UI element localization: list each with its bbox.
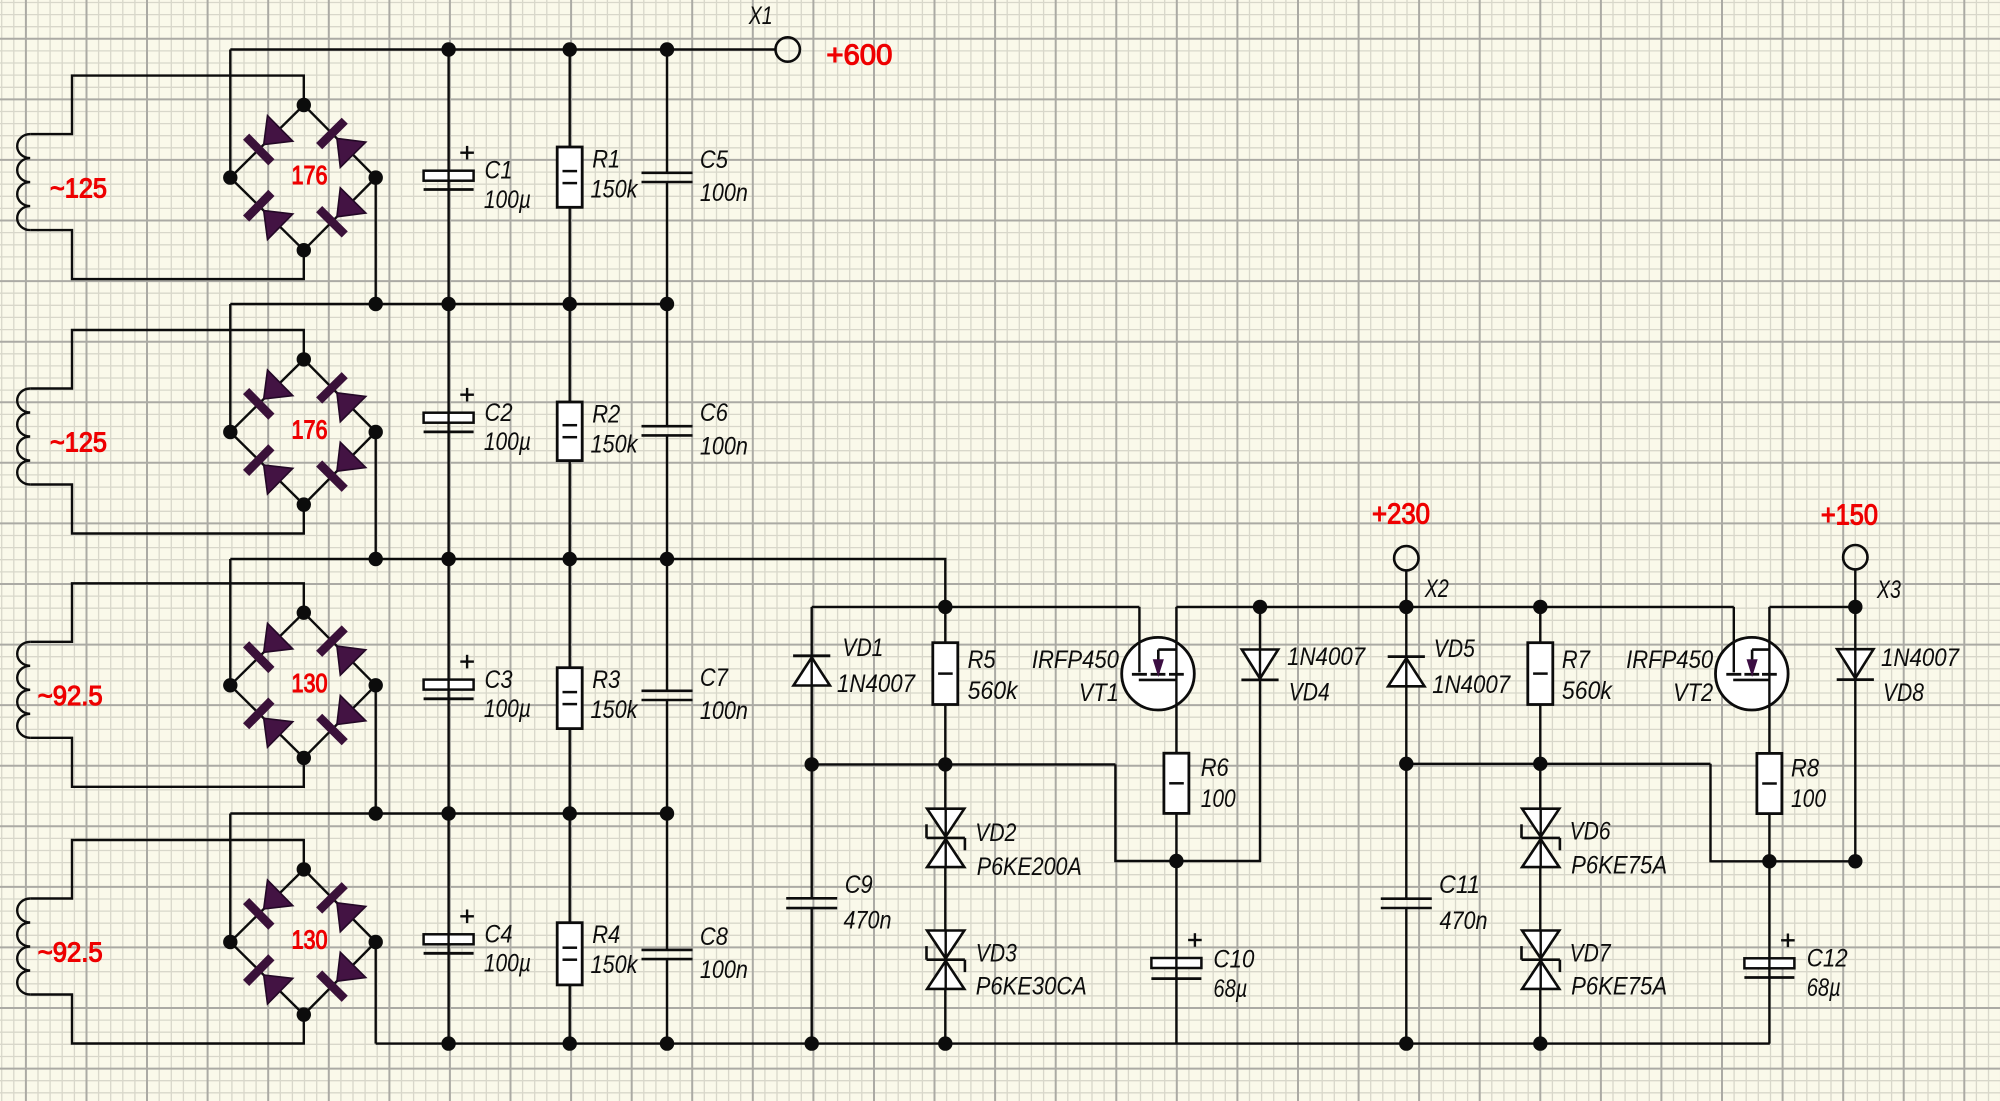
svg-text:VT1: VT1: [1079, 679, 1119, 707]
svg-text:VT2: VT2: [1673, 679, 1713, 707]
svg-text:VD4: VD4: [1289, 679, 1330, 707]
svg-text:VD2: VD2: [975, 819, 1016, 847]
svg-text:~125: ~125: [50, 172, 107, 203]
svg-text:68µ: 68µ: [1807, 974, 1841, 1002]
svg-text:150k: 150k: [591, 430, 639, 458]
svg-text:IRFP450: IRFP450: [1032, 646, 1119, 674]
svg-text:P6KE30CA: P6KE30CA: [976, 973, 1087, 1001]
svg-text:150k: 150k: [591, 951, 639, 979]
svg-text:P6KE75A: P6KE75A: [1571, 973, 1667, 1001]
svg-text:VD3: VD3: [976, 940, 1017, 968]
svg-text:R1: R1: [592, 145, 620, 173]
svg-text:1N4007: 1N4007: [1287, 643, 1366, 671]
svg-text:P6KE75A: P6KE75A: [1571, 851, 1667, 879]
svg-text:VD8: VD8: [1883, 679, 1924, 707]
svg-text:C5: C5: [700, 146, 728, 174]
svg-text:~92.5: ~92.5: [38, 680, 103, 711]
svg-text:C3: C3: [485, 666, 513, 694]
svg-text:560k: 560k: [1562, 677, 1613, 705]
svg-text:560k: 560k: [968, 677, 1019, 705]
svg-text:~92.5: ~92.5: [38, 937, 103, 968]
svg-text:R8: R8: [1791, 754, 1819, 782]
svg-text:C1: C1: [485, 157, 513, 185]
svg-text:100µ: 100µ: [484, 950, 531, 978]
svg-text:176: 176: [292, 417, 328, 445]
svg-text:100n: 100n: [700, 432, 748, 460]
svg-text:100n: 100n: [700, 697, 748, 725]
svg-text:470n: 470n: [844, 907, 892, 935]
svg-text:~125: ~125: [50, 427, 107, 458]
svg-text:C11: C11: [1439, 871, 1480, 899]
svg-text:C9: C9: [845, 871, 873, 899]
svg-text:130: 130: [292, 670, 328, 698]
svg-text:X1: X1: [748, 2, 773, 30]
svg-text:VD1: VD1: [842, 634, 883, 662]
svg-text:C7: C7: [700, 664, 729, 692]
svg-text:100µ: 100µ: [484, 186, 531, 214]
svg-text:C2: C2: [485, 399, 513, 427]
svg-text:1N4007: 1N4007: [1881, 644, 1960, 672]
svg-text:R6: R6: [1201, 754, 1229, 782]
svg-text:150k: 150k: [591, 696, 639, 724]
svg-text:176: 176: [292, 162, 328, 190]
svg-text:130: 130: [292, 927, 328, 955]
svg-text:C12: C12: [1807, 945, 1848, 973]
svg-text:470n: 470n: [1440, 907, 1488, 935]
svg-text:100n: 100n: [700, 179, 748, 207]
svg-text:100µ: 100µ: [484, 428, 531, 456]
svg-text:1N4007: 1N4007: [837, 670, 916, 698]
svg-text:1N4007: 1N4007: [1432, 671, 1511, 699]
svg-text:100: 100: [1791, 785, 1826, 813]
svg-text:R2: R2: [592, 400, 620, 428]
svg-text:68µ: 68µ: [1213, 975, 1247, 1003]
svg-text:R5: R5: [968, 646, 996, 674]
svg-text:+230: +230: [1372, 499, 1430, 531]
svg-text:IRFP450: IRFP450: [1626, 646, 1713, 674]
svg-text:C4: C4: [485, 920, 513, 948]
svg-text:C8: C8: [700, 923, 728, 951]
svg-text:100µ: 100µ: [484, 695, 531, 723]
svg-text:X2: X2: [1424, 575, 1449, 603]
svg-text:R3: R3: [592, 666, 620, 694]
svg-text:150k: 150k: [591, 175, 639, 203]
svg-text:C10: C10: [1213, 946, 1254, 974]
svg-text:VD5: VD5: [1434, 635, 1475, 663]
svg-text:100n: 100n: [700, 956, 748, 984]
svg-text:+150: +150: [1821, 500, 1878, 532]
svg-text:VD7: VD7: [1570, 940, 1612, 968]
svg-text:R7: R7: [1562, 646, 1591, 674]
svg-text:+600: +600: [826, 39, 892, 71]
svg-text:C6: C6: [700, 399, 728, 427]
svg-text:VD6: VD6: [1570, 817, 1611, 845]
svg-text:100: 100: [1201, 785, 1236, 813]
svg-text:R4: R4: [592, 921, 620, 949]
svg-text:P6KE200A: P6KE200A: [977, 853, 1082, 881]
svg-text:X3: X3: [1876, 576, 1901, 604]
